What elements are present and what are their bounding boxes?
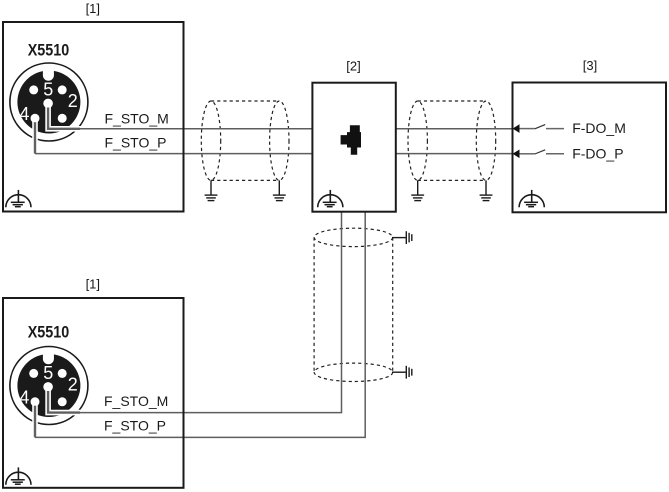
svg-text:X5510: X5510 [28,41,69,60]
svg-text:5: 5 [43,79,53,99]
svg-text:4: 4 [19,388,29,408]
svg-text:2: 2 [68,91,78,111]
svg-text:[2]: [2] [346,59,360,74]
svg-text:F_STO_M: F_STO_M [104,393,168,409]
svg-text:2: 2 [68,374,78,394]
svg-text:5: 5 [43,363,53,383]
svg-text:[1]: [1] [86,277,100,292]
svg-text:F_STO_P: F_STO_P [105,134,167,150]
svg-text:F_STO_P: F_STO_P [104,418,166,434]
svg-text:4: 4 [19,104,29,124]
svg-text:F_STO_M: F_STO_M [105,111,169,127]
svg-text:F-DO_M: F-DO_M [572,120,626,136]
svg-text:[3]: [3] [583,58,597,73]
svg-text:F-DO_P: F-DO_P [572,145,623,161]
svg-text:[1]: [1] [86,1,100,16]
svg-text:X5510: X5510 [28,322,69,341]
